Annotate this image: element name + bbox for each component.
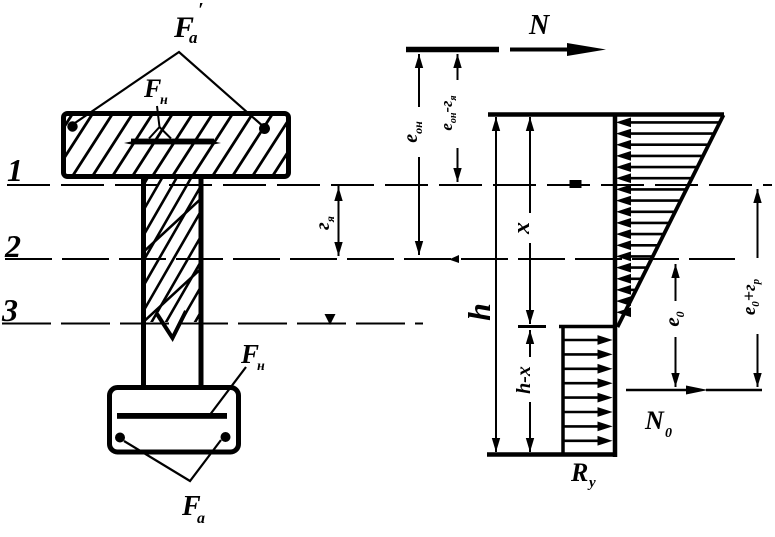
label Fn bottom with leader line [209, 367, 246, 416]
label Fn top with leader fork [149, 106, 171, 139]
rebar dot top-right [259, 123, 270, 134]
svg-text:0: 0 [665, 426, 672, 441]
svg-text:х: х [509, 222, 535, 235]
axis line 2 [5, 258, 735, 260]
svg-text:1: 1 [7, 152, 23, 188]
tension block bottom edge [487, 452, 617, 457]
tension block top edge [559, 325, 617, 329]
tendon duct bar in top flange [124, 139, 221, 145]
tension stress arrows (block rows) [565, 336, 612, 445]
svg-text:N: N [528, 10, 551, 41]
tick at level x [518, 325, 546, 328]
label R_t [570, 458, 596, 491]
dimension h [495, 117, 497, 452]
axis line 3 [2, 323, 423, 325]
top reference bar [406, 47, 499, 53]
label N_0 [644, 406, 672, 441]
rebar dot bottom-left [115, 433, 125, 443]
tension block left edge [561, 326, 565, 455]
bottom flange [110, 388, 239, 453]
svg-text:a: a [197, 510, 205, 527]
label Fa bottom with leader lines [124, 440, 221, 481]
label 1 [7, 152, 23, 188]
svg-text:′: ′ [198, 0, 204, 21]
svg-text:3: 3 [1, 292, 18, 328]
tendon bar in bottom flange [117, 413, 227, 419]
rebar dot top-left [67, 121, 77, 131]
node marker on line 3 (down arrow) [325, 314, 336, 325]
neutral axis vertical line [613, 113, 618, 458]
svg-text:h-х: h-х [513, 366, 535, 394]
svg-text:2: 2 [4, 228, 21, 264]
node marker on line 2 [449, 255, 459, 263]
top flange (hatched) [30, 110, 335, 180]
label N [528, 10, 551, 41]
label Fa-prime with leader lines [72, 52, 265, 128]
dimension r_ya between lines 1 and 2 [338, 186, 340, 256]
dimension e_on minus r_ya [457, 54, 459, 182]
node marker on line 1 (centroid square) [570, 180, 582, 188]
label 3 [1, 292, 18, 328]
svg-text:у: у [587, 475, 596, 491]
crack V at web hatch bottom [157, 311, 186, 338]
svg-text:еон-гя: еон-гя [437, 95, 459, 130]
compression stress arrows (triangle rows) [618, 118, 720, 316]
force N arrow [510, 48, 572, 52]
svg-text:R: R [570, 458, 588, 487]
web walls [144, 179, 202, 390]
svg-text:F: F [143, 74, 161, 103]
axis line 1 [7, 184, 772, 186]
svg-text:N: N [644, 406, 665, 435]
dimension e_0 [675, 264, 677, 387]
dimension e_0 plus r_p [757, 189, 759, 387]
svg-text:н: н [160, 93, 168, 108]
dimension h minus x [529, 330, 531, 452]
force N_0 arrow [626, 389, 762, 392]
label 2 [4, 228, 21, 264]
svg-text:h: h [461, 303, 497, 321]
rebar dot bottom-right [221, 432, 231, 442]
triangle hypotenuse [618, 115, 724, 327]
dimension e_on [418, 54, 420, 255]
svg-text:н: н [257, 359, 265, 374]
svg-text:a: a [189, 28, 198, 47]
dimension x (compression depth) [529, 117, 531, 324]
stress diagram top edge [488, 112, 724, 117]
